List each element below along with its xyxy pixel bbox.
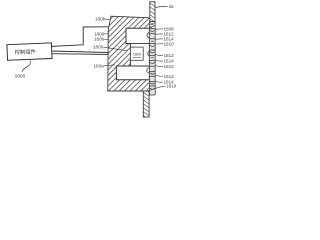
panel 3a (top bar, hatched) <box>150 2 155 22</box>
svg-text:3a: 3a <box>169 4 174 9</box>
leader wire from box to label 1800 <box>22 60 30 72</box>
device box 1800 inside bracket <box>130 47 143 60</box>
label 1806 lower <box>93 45 128 51</box>
LED lens bump upper <box>147 33 150 38</box>
leaders right <box>150 29 166 91</box>
svg-text:1814: 1814 <box>164 59 175 64</box>
leader to 3a <box>155 6 167 7</box>
wire W3 <box>52 53 112 56</box>
svg-text:160b: 160b <box>94 37 105 42</box>
label 160b <box>94 37 110 42</box>
wire W1 (box to block top area) <box>52 27 112 47</box>
ladder top cell hatch <box>149 22 155 29</box>
bottom bar (hatched leg) <box>143 91 149 117</box>
cavity bottom web line <box>126 43 149 45</box>
wire W2 <box>52 51 112 53</box>
svg-text:1812: 1812 <box>164 74 175 79</box>
svg-text:1800: 1800 <box>15 73 26 79</box>
label 180b <box>95 17 110 22</box>
label 160a <box>94 63 116 68</box>
right labels <box>164 27 177 89</box>
stepped white recess (upper cavity, middle opening, lower slot) <box>116 28 149 80</box>
svg-text:1812: 1812 <box>164 53 175 58</box>
slot top web line <box>116 65 149 67</box>
svg-text:1806: 1806 <box>93 45 104 50</box>
label 1806 upper <box>94 31 109 36</box>
svg-text:160a: 160a <box>94 63 105 68</box>
LED stack ladder column <box>149 22 155 96</box>
LED lens bump middle <box>148 51 150 55</box>
svg-text:1810: 1810 <box>164 41 175 46</box>
svg-text:180b: 180b <box>95 17 106 22</box>
svg-text:1800: 1800 <box>133 52 141 56</box>
control box 1800 (控制组件) <box>7 43 52 60</box>
main bracket block (hatched) <box>108 16 150 91</box>
LED lens bump lower <box>147 68 150 73</box>
svg-text:1810: 1810 <box>164 64 175 69</box>
svg-text:1810: 1810 <box>166 84 177 89</box>
